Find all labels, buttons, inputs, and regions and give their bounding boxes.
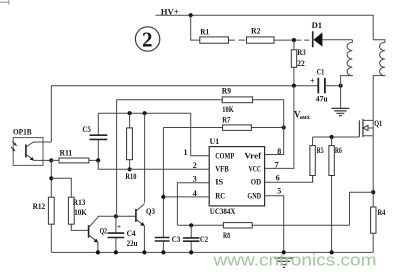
svg-text:R2: R2 bbox=[251, 26, 261, 36]
svg-text:Vref: Vref bbox=[244, 150, 261, 160]
svg-text:OD: OD bbox=[251, 177, 261, 187]
wire Vaux vertical down to VCC pin 7 bbox=[265, 86, 294, 169]
wire R1 to R2 (dashed) bbox=[229, 39, 247, 41]
svg-text:R9: R9 bbox=[222, 86, 231, 96]
wire Q1 gate line bbox=[313, 136, 360, 138]
wire bottom ground rail bbox=[51, 251, 373, 253]
junction dot OP1B emitter / R11 bbox=[49, 158, 53, 162]
svg-text:C1: C1 bbox=[317, 67, 325, 77]
svg-text:7: 7 bbox=[275, 160, 279, 169]
wire Q1 source down through R4 bbox=[372, 136, 374, 253]
wire Vref vertical to pin 8 bbox=[265, 128, 284, 155]
svg-text:IS: IS bbox=[215, 177, 223, 187]
wire HV+ top rail bbox=[156, 15, 374, 40]
junction dot C2 bbox=[189, 223, 193, 227]
resistor R5 bbox=[310, 137, 324, 182]
junction dot R6 bottom bbox=[330, 250, 334, 254]
junction dot HV+ rail / R1 branch bbox=[189, 13, 193, 17]
resistor R13 bbox=[68, 197, 88, 230]
svg-text:R4: R4 bbox=[377, 208, 385, 217]
svg-text:22u: 22u bbox=[127, 239, 138, 248]
junction dot transformer primary bottom / ground bbox=[339, 84, 343, 88]
wire Q3 collector vertical bbox=[144, 113, 146, 202]
wire OD pin 6 to R5 bbox=[265, 176, 313, 183]
svg-text:6: 6 bbox=[276, 174, 280, 183]
transformer secondary winding bbox=[373, 40, 385, 121]
transistor Q2 bbox=[89, 216, 108, 252]
svg-text:OP1B: OP1B bbox=[13, 127, 32, 137]
junction dot RC stub bbox=[161, 195, 165, 199]
junction dot IC ground bbox=[282, 250, 286, 254]
ground symbol (transformer) bbox=[332, 108, 350, 115]
resistor R9 bbox=[222, 86, 253, 115]
capacitor C5 bbox=[82, 113, 107, 160]
MOSFET Q1 bbox=[359, 118, 382, 137]
svg-text:U1: U1 bbox=[210, 136, 220, 146]
junction dot C3 bottom bbox=[161, 250, 165, 254]
wire R7 net from Vref to pin area bbox=[163, 127, 283, 129]
svg-text:aux: aux bbox=[300, 114, 311, 121]
capacitor C2 bbox=[183, 225, 208, 252]
wire D1 cathode to transformer primary bbox=[322, 39, 352, 41]
junction dot Q3 collector bbox=[143, 111, 147, 115]
wire compensation top line bbox=[98, 112, 190, 114]
wire VFB line to pin 2 bbox=[98, 160, 209, 169]
capacitor C1 bbox=[310, 67, 328, 104]
resistor R1 bbox=[200, 37, 229, 43]
IC pin names bbox=[215, 150, 261, 200]
svg-text:2: 2 bbox=[142, 28, 153, 52]
svg-text:R8: R8 bbox=[223, 231, 230, 240]
resistor R10 bbox=[125, 113, 136, 181]
wire junction to D1 (dashed) bbox=[296, 39, 312, 41]
junction dot R10 top bbox=[128, 111, 132, 115]
optocoupler OP1B bbox=[11, 127, 51, 166]
wire HV+ down to R1 bbox=[191, 15, 200, 40]
svg-text:+: + bbox=[310, 77, 315, 86]
resistor R7 bbox=[222, 114, 251, 130]
svg-text:47u: 47u bbox=[316, 94, 328, 104]
svg-text:5: 5 bbox=[277, 187, 281, 196]
capacitor C4 bbox=[108, 216, 138, 252]
wire RC pin 4 stub bbox=[163, 196, 209, 198]
wire junction down to ground bbox=[340, 86, 342, 109]
svg-text:+: + bbox=[117, 223, 121, 231]
figure marker circled 2 bbox=[135, 27, 159, 52]
wire RC/R8 line bbox=[177, 224, 349, 226]
transistor Q3 bbox=[136, 204, 155, 253]
ground symbol (bottom) bbox=[274, 258, 293, 267]
transformer primary winding bbox=[341, 40, 353, 86]
svg-text:R7: R7 bbox=[222, 114, 231, 124]
svg-text:R6: R6 bbox=[335, 146, 342, 155]
svg-text:10K: 10K bbox=[74, 208, 87, 217]
resistor R4 bbox=[371, 207, 386, 233]
svg-text:COMP: COMP bbox=[215, 150, 234, 160]
junction dot C4 / R9 net bbox=[114, 214, 118, 218]
wire IS pin 3 to RC filter line bbox=[177, 183, 209, 226]
wire pin1 COMP from feedback line bbox=[191, 113, 210, 156]
junction dot Q2 emitter bbox=[96, 250, 100, 254]
resistor R11 bbox=[51, 147, 98, 163]
svg-text:1: 1 bbox=[184, 148, 188, 157]
wire GND pin 5 to bottom rail bbox=[265, 196, 284, 253]
resistor R2 bbox=[247, 37, 275, 43]
svg-text:GND: GND bbox=[247, 190, 261, 200]
svg-text:Q1: Q1 bbox=[374, 118, 382, 128]
svg-text:C2: C2 bbox=[200, 235, 208, 244]
svg-text:VCC: VCC bbox=[249, 164, 262, 174]
svg-text:10K: 10K bbox=[222, 104, 234, 114]
junction dot R7/R9/Vref bbox=[282, 125, 286, 129]
svg-text:R12: R12 bbox=[33, 202, 46, 211]
junction dot R11 right / C5 / VFB bbox=[96, 158, 100, 162]
svg-text:VFB: VFB bbox=[215, 164, 229, 174]
wire Vaux rail (OP1B to C1) bbox=[51, 85, 318, 87]
scan artifact top-left corner bbox=[0, 0, 9, 5]
svg-text:R1: R1 bbox=[200, 27, 209, 37]
diode D1 bbox=[312, 20, 323, 47]
svg-text:R11: R11 bbox=[60, 147, 73, 157]
junction dot source / IS sense bbox=[371, 190, 375, 194]
resistor R3 bbox=[291, 40, 305, 86]
wire branch to R13 bbox=[51, 178, 71, 197]
junction dot R2/R3/D1 bbox=[292, 38, 296, 42]
junction dot C4 bottom bbox=[114, 250, 118, 254]
svg-text:C4: C4 bbox=[127, 229, 136, 238]
junction dot R10 bottom / VFB line bbox=[128, 167, 132, 171]
svg-text:D1: D1 bbox=[312, 20, 323, 30]
svg-text:Q2: Q2 bbox=[100, 227, 108, 236]
svg-text:Q3: Q3 bbox=[146, 207, 155, 216]
IC U1 box bbox=[209, 147, 264, 206]
junction dot R12/R13 branch bbox=[49, 176, 53, 180]
svg-text:R3: R3 bbox=[297, 48, 306, 57]
wire OP1B emitter down bbox=[50, 160, 52, 197]
svg-text:UC384X: UC384X bbox=[210, 206, 236, 216]
node Vaux label bbox=[294, 110, 311, 122]
wire R7 corner down to RC pin / C3 bbox=[162, 128, 164, 238]
svg-text:RC: RC bbox=[215, 190, 225, 200]
wire C1 to transformer bottom junction bbox=[325, 85, 341, 87]
capacitor C3 bbox=[155, 235, 181, 252]
svg-text:22: 22 bbox=[297, 59, 305, 68]
wire IS sense line from source to RC line bbox=[350, 192, 374, 225]
wire R9 corner down to C4 node bbox=[116, 100, 118, 217]
junction dot C2 bottom bbox=[189, 250, 193, 254]
wire R9 net bbox=[117, 100, 284, 128]
svg-text:R5: R5 bbox=[317, 146, 324, 155]
svg-text:www.cntronics.com: www.cntronics.com bbox=[212, 251, 376, 270]
resistor R12 bbox=[33, 197, 55, 252]
IC pin numbers bbox=[184, 147, 282, 198]
svg-text:C5: C5 bbox=[82, 124, 91, 134]
resistor R6 bbox=[329, 137, 342, 252]
wire R2 to R3 junction bbox=[274, 39, 294, 41]
junction dot R3 / Vaux rail bbox=[292, 84, 296, 88]
wire Vaux rail down-left vertical to OP1B bbox=[50, 86, 52, 142]
svg-text:R10: R10 bbox=[125, 172, 136, 181]
resistor R8 bbox=[223, 223, 252, 240]
svg-text:C3: C3 bbox=[172, 235, 181, 244]
wire Q2 collector to Q3 base bbox=[98, 215, 136, 217]
junction dot gate / R6 bbox=[330, 135, 334, 139]
svg-text:R13: R13 bbox=[73, 198, 86, 207]
junction dot Q3 emitter bbox=[142, 250, 146, 254]
